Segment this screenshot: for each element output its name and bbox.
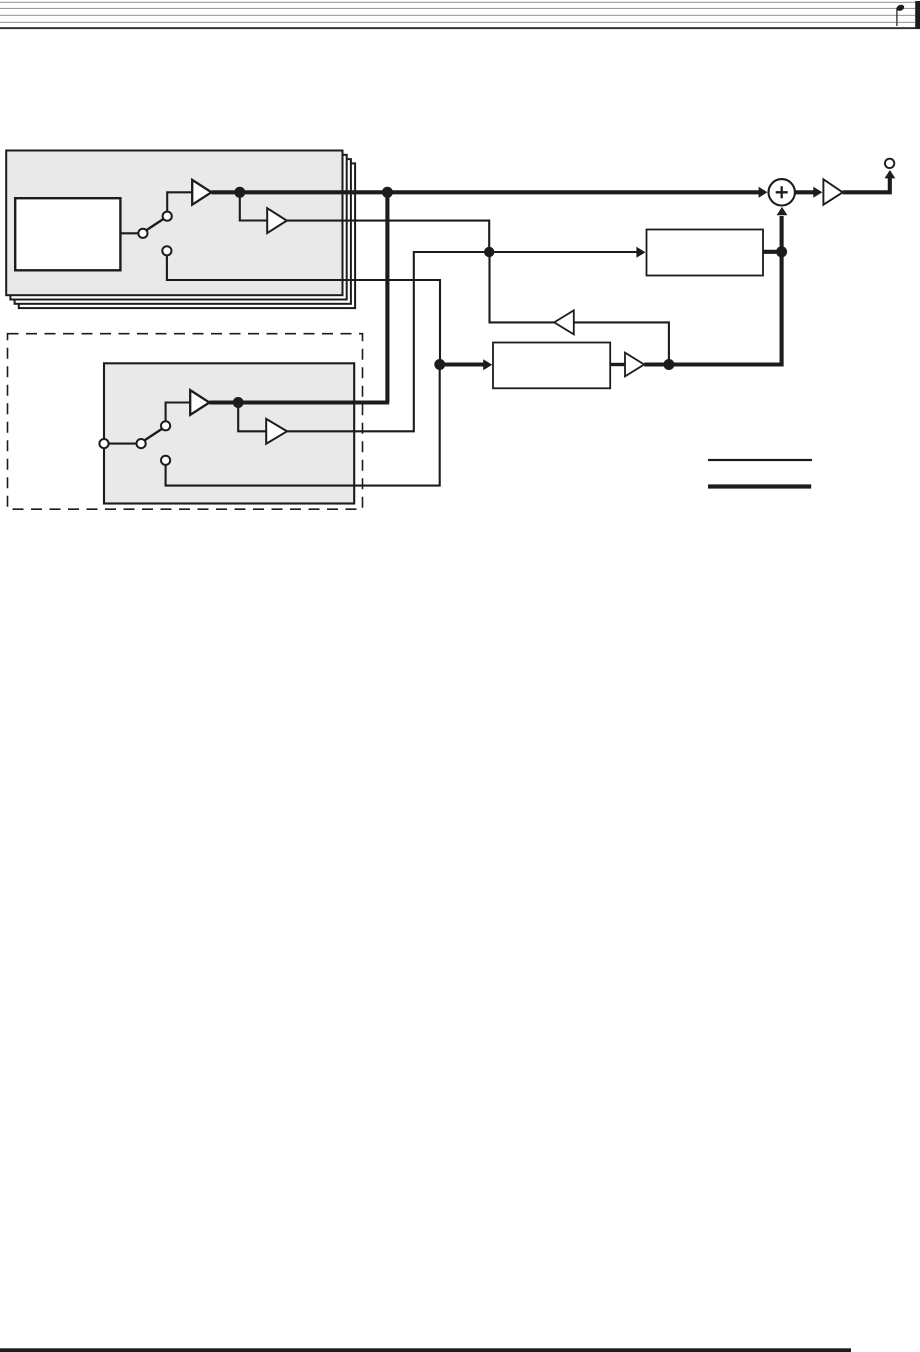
arrowhead into reverb block [636, 247, 645, 258]
wire: junction C down to amp U4 [238, 403, 266, 432]
legend thin (mono) line [708, 459, 812, 461]
module 2 box [104, 363, 354, 503]
output terminal circle [885, 159, 894, 168]
arrowhead into sum node [759, 187, 768, 198]
header staff line 2 [0, 8, 915, 9]
sum node plus sign [776, 186, 788, 198]
module 1 source box [15, 198, 120, 270]
header staff bottom line [0, 27, 920, 29]
node: chorus output junction E [663, 359, 674, 370]
eighth note head [896, 4, 905, 12]
wire: input terminal to switch common module 2 [109, 443, 137, 445]
wire: main stereo line from amp U1 to sum [211, 190, 760, 194]
arrowhead up into output terminal [885, 170, 896, 178]
node: module 2 out junction C [233, 397, 244, 408]
wire: module 2 main out (thick) to junction B riser [209, 400, 389, 404]
module 1 box (front sheet) [6, 151, 342, 296]
switch upper contact module 1 [163, 212, 172, 221]
node: reverb output junction G [776, 246, 787, 257]
arrowhead into chorus block [483, 359, 492, 370]
wire: feedback from junction E up [574, 322, 669, 364]
module 1 stack sheet 4 (back) [19, 163, 355, 308]
module 1 stack sheet 3 [15, 159, 351, 304]
switch lower contact module 1 [162, 246, 171, 255]
footer rule [0, 1348, 851, 1352]
wire: chorus amp to riser (thick) [644, 252, 781, 365]
switch common contact module 2 [137, 439, 146, 448]
switch lower contact module 2 [161, 456, 170, 465]
reverb block [647, 230, 764, 276]
wire: master amp to output terminal (thick) [843, 178, 890, 192]
wire: source box to switch common [120, 232, 139, 234]
node: chorus input node D [434, 359, 445, 370]
wire: switch arm module 1 [146, 218, 165, 231]
wire: feedback amp to reverb input junction [490, 252, 555, 322]
wire: node D to chorus block (thick) [440, 362, 485, 366]
switch common contact module 1 [138, 229, 147, 238]
wire: upper contact to amp U3 input [166, 403, 191, 422]
master amp [823, 179, 842, 204]
header staff line 4 [0, 22, 915, 23]
feedback amp (points left) [554, 310, 574, 334]
header right end bar [915, 1, 920, 29]
wire: reverb input line to reverb block [489, 251, 637, 253]
arrowhead into master amp [813, 187, 822, 198]
wire: module 1 reverb send to reverb input line [287, 221, 489, 252]
arrowhead up into sum node [777, 207, 788, 215]
wire: switch arm module 2 [144, 428, 163, 441]
legend thick (stereo) line [708, 484, 811, 488]
wire: chorus block to chorus amp [610, 363, 625, 366]
sum node (+) circle [769, 179, 795, 205]
module 2 input terminal [99, 439, 108, 448]
wire: sum node to master amp (thick) [795, 190, 815, 194]
wire: upper contact to amp 1 input [167, 192, 192, 211]
wire: junction G up to sum node (thick) [780, 216, 784, 252]
amp U4 module 2 (reverb send) [266, 419, 287, 444]
amp U3 module 2 [190, 390, 209, 415]
wire: module 2 bypass line to chorus node [166, 365, 440, 486]
wire: reverb block to junction G (thick) [763, 250, 782, 254]
switch upper contact module 2 [161, 421, 170, 430]
wire: junction A down to amp U2 [240, 192, 268, 220]
eighth note stem [896, 8, 897, 26]
header staff line 1 [0, 2, 915, 3]
amp U1 module 1 [192, 180, 211, 205]
module 1 stack sheet 2 [10, 155, 346, 300]
node: main line junction A [234, 187, 245, 198]
amp U2 module 1 (reverb send) [267, 208, 287, 233]
DSP dashed enclosure [8, 334, 363, 510]
wire: module 1 bypass line to chorus node [167, 255, 440, 364]
wire: thick vertical from module 2 amp to junction B [385, 192, 389, 402]
chorus block [493, 343, 610, 389]
node: reverb input junction F [484, 247, 494, 257]
wire: module 2 reverb send up to reverb input line [287, 252, 489, 431]
header staff line 3 [0, 15, 915, 16]
node: main line junction B [382, 187, 393, 198]
chorus output amp [625, 353, 644, 377]
